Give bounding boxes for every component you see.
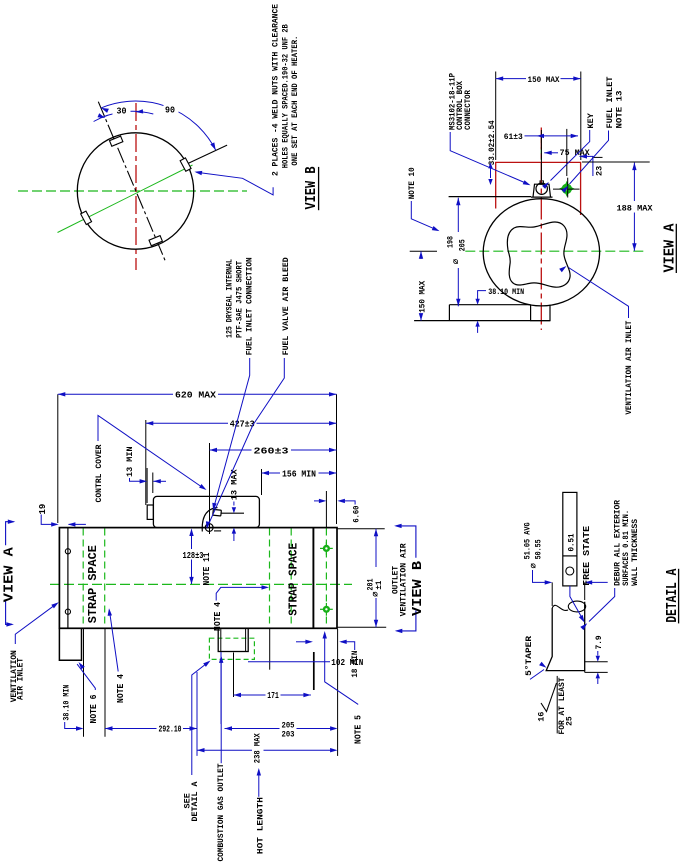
dim dia 198/205 xyxy=(457,198,459,232)
underline VIEW A title xyxy=(675,224,677,273)
svg-text:260±3: 260±3 xyxy=(254,446,289,456)
extension line for 427±3 xyxy=(145,420,147,505)
extension top edge right xyxy=(337,528,384,530)
svg-text:⌀: ⌀ xyxy=(529,563,539,569)
leader debur xyxy=(589,588,615,622)
svg-text:NOTE 11: NOTE 11 xyxy=(202,552,212,586)
svg-text:⌀: ⌀ xyxy=(371,591,381,597)
svg-text:CONTRL COVER: CONTRL COVER xyxy=(94,444,104,503)
extension outlet centerline down xyxy=(233,653,235,698)
svg-text:128±3: 128±3 xyxy=(183,551,204,561)
svg-text:427±3: 427±3 xyxy=(230,420,255,430)
svg-text:NOTE 6: NOTE 6 xyxy=(89,695,99,724)
control cover xyxy=(153,496,259,527)
extension tube right up xyxy=(584,582,586,600)
dim 102 MIN / 18 MIN xyxy=(296,641,309,643)
svg-text:19: 19 xyxy=(38,504,48,515)
extension line tab xyxy=(146,468,148,503)
combustion gas outlet stub xyxy=(218,628,248,651)
svg-text:STRAP SPACE: STRAP SPACE xyxy=(287,543,301,616)
svg-text:±1: ±1 xyxy=(375,580,384,589)
VIEW B diagonal nut axis (green) xyxy=(58,165,193,233)
bottom bracket xyxy=(449,304,530,306)
break line squiggle xyxy=(552,605,568,610)
fuel inlet line upper xyxy=(221,512,244,514)
svg-text:171: 171 xyxy=(267,691,279,701)
fuel inlet symbol (green) xyxy=(562,184,572,194)
weld nut at 86.1,217.8 xyxy=(81,211,92,224)
extension line right (shared) xyxy=(336,394,338,524)
leader CONTRL COVER xyxy=(98,416,204,489)
extension end cap down xyxy=(313,652,315,690)
extension line for 260±3 xyxy=(209,443,211,534)
tick for 23 xyxy=(592,156,602,158)
svg-text:DETAIL A: DETAIL A xyxy=(664,569,680,623)
right end cap weld line xyxy=(312,528,314,629)
extension fuel inlet center xyxy=(566,129,568,176)
surface finish check xyxy=(541,692,554,712)
extension bottom edge right xyxy=(337,626,386,628)
leader KEY xyxy=(551,130,590,181)
svg-text:61±3: 61±3 xyxy=(504,132,523,142)
leader ventilation air inlet view A xyxy=(569,268,629,319)
dim 128±3 + NOTE 11 xyxy=(191,530,193,550)
svg-text:7.9: 7.9 xyxy=(594,635,604,649)
strap space line left-2 (green dashed) xyxy=(104,529,106,628)
svg-text:WALL THICKNESS: WALL THICKNESS xyxy=(631,519,640,586)
underline DETAIL A title xyxy=(678,569,680,624)
svg-text:COMBUSTION GAS OUTLET: COMBUSTION GAS OUTLET xyxy=(216,764,226,862)
VIEW B circle xyxy=(77,133,193,249)
connector on top of circle xyxy=(533,184,551,197)
extension connector center xyxy=(540,130,542,180)
svg-text:VENTILATION AIR INLET: VENTILATION AIR INLET xyxy=(624,321,634,415)
svg-text:203: 203 xyxy=(282,730,295,739)
svg-text:VIEW B: VIEW B xyxy=(304,166,320,209)
svg-text:VIEW A: VIEW A xyxy=(1,547,17,603)
svg-text:156 MIN: 156 MIN xyxy=(282,469,316,479)
svg-text:150 MAX: 150 MAX xyxy=(528,75,561,85)
extension strap line left-1 down xyxy=(83,629,85,737)
svg-text:PTF-SAE J475 SHORT: PTF-SAE J475 SHORT xyxy=(236,261,245,338)
svg-text:238 MAX: 238 MAX xyxy=(253,732,263,763)
svg-text:0.51: 0.51 xyxy=(566,534,576,552)
svg-text:STRAP SPACE: STRAP SPACE xyxy=(86,545,100,623)
strap space line right-1 (green dashed) xyxy=(269,529,271,628)
svg-text:16: 16 xyxy=(537,712,547,722)
combustion outlet marked zone (green dashed rect) xyxy=(209,638,254,659)
svg-text:2 PLACES -4 WELD NUTS WITH CLE: 2 PLACES -4 WELD NUTS WITH CLEARANCE xyxy=(272,4,281,176)
VIEW A control box footprint (red) xyxy=(496,162,581,215)
svg-text:150 MAX: 150 MAX xyxy=(418,280,428,313)
weld nut centerline (green dashed) xyxy=(325,529,327,628)
svg-text:DEBUR ALL EXTERIOR: DEBUR ALL EXTERIOR xyxy=(613,500,622,586)
underline VIEW B title xyxy=(318,167,320,210)
extension tube left up xyxy=(551,582,553,606)
weld nut at 185.6,164.6 xyxy=(180,158,191,171)
svg-text:30: 30 xyxy=(117,107,127,117)
svg-text:DETAIL A: DETAIL A xyxy=(190,781,200,822)
svg-text:292.10: 292.10 xyxy=(159,725,182,735)
strap space line left-1 (green dashed) xyxy=(82,529,84,628)
VIEW B callout brackets xyxy=(396,526,416,558)
svg-text:188 MAX: 188 MAX xyxy=(617,203,654,213)
fuel valve xyxy=(205,524,213,532)
extension red box top right xyxy=(582,161,650,163)
tube outline xyxy=(546,602,585,671)
weld nut at 155.7,240.7 xyxy=(149,236,162,246)
svg-text:HOT LENGTH: HOT LENGTH xyxy=(255,797,265,854)
svg-text:50.55: 50.55 xyxy=(535,539,544,559)
leader weld nut note xyxy=(197,172,274,195)
svg-text:FUEL INLET: FUEL INLET xyxy=(605,77,615,129)
VIEW A vertical centerline (red) xyxy=(540,128,542,331)
svg-text:38.10 MIN: 38.10 MIN xyxy=(488,287,524,297)
svg-text:FREE STATE: FREE STATE xyxy=(582,525,592,586)
centerline horizontal main view (green dashed) xyxy=(50,583,352,585)
svg-text:CONNECTOR: CONNECTOR xyxy=(464,90,473,130)
extension left 150 MAX xyxy=(495,72,497,161)
svg-text:205: 205 xyxy=(282,722,295,731)
feature control frame (circularity 0.51) xyxy=(563,492,577,586)
extension line 7.9 upper xyxy=(585,661,608,663)
extension line 7.9 lower xyxy=(585,671,608,673)
strap top edge line xyxy=(449,196,531,198)
svg-text:38.10 MIN: 38.10 MIN xyxy=(61,685,71,721)
fuel inlet cross vertical xyxy=(567,178,569,198)
valve base line xyxy=(214,530,221,532)
svg-text:NOTE 5: NOTE 5 xyxy=(354,715,364,744)
svg-text:5°TAPER: 5°TAPER xyxy=(524,635,534,676)
extension outlet left down xyxy=(220,652,222,724)
ventilation inlet step (bottom left) xyxy=(59,628,81,660)
svg-text:FUEL VALVE AIR BLEED: FUEL VALVE AIR BLEED xyxy=(282,257,291,355)
svg-text:90: 90 xyxy=(165,106,175,116)
fuel line arc xyxy=(202,508,217,532)
extension line nut centerline up xyxy=(325,491,327,527)
leader fuel inlet xyxy=(570,131,609,185)
angle dim 30 (inner arc) xyxy=(94,111,154,121)
weld nut circles left end xyxy=(65,549,70,554)
leader fuel valve air bleed xyxy=(207,358,284,527)
leader taper xyxy=(530,670,544,680)
svg-text:18 MIN: 18 MIN xyxy=(350,651,360,678)
dim 238 MAX xyxy=(197,749,252,751)
weld nut symbol (green) at right end y=548.4 xyxy=(323,545,330,552)
angle dim 90 (outer arc) xyxy=(101,101,216,150)
fuel inlet cross horizontal xyxy=(553,188,580,190)
svg-text:13 MIN: 13 MIN xyxy=(125,446,135,477)
svg-text:25: 25 xyxy=(565,716,574,726)
svg-text:198: 198 xyxy=(446,236,455,248)
leader FCF xyxy=(570,586,584,621)
svg-text:VENTILATION AIR: VENTILATION AIR xyxy=(400,543,409,616)
leader connector xyxy=(450,132,528,184)
svg-text:23: 23 xyxy=(595,166,605,176)
VIEW A vertical green dashes xyxy=(540,136,542,160)
VIEW B horizontal centerline (green dashed) xyxy=(18,190,247,192)
svg-text:AIR INLET: AIR INLET xyxy=(17,658,26,700)
left end cap weld line xyxy=(67,528,69,629)
svg-text:NOTE 4: NOTE 4 xyxy=(116,673,126,703)
svg-text:HOLES EQUALLY SPACED.190-32 UN: HOLES EQUALLY SPACED.190-32 UNF 2B xyxy=(282,24,291,168)
dim 171 xyxy=(234,694,266,696)
extension strap right-1 down xyxy=(269,629,271,670)
svg-text:⌀: ⌀ xyxy=(451,258,461,264)
svg-text:KEY: KEY xyxy=(586,112,596,128)
svg-text:51.05 AVG: 51.05 AVG xyxy=(524,522,533,559)
svg-text:33.02±2.54: 33.02±2.54 xyxy=(488,120,497,165)
heater body outline xyxy=(59,528,337,629)
svg-text:6.60: 6.60 xyxy=(352,506,361,523)
extension line for 156 MIN xyxy=(261,469,263,495)
leader ventilation air inlet xyxy=(15,604,56,644)
svg-text:NOTE 4: NOTE 4 xyxy=(213,601,223,631)
extension line left for 620 MAX xyxy=(57,394,59,523)
svg-text:SURFACES 0.81 MIN.: SURFACES 0.81 MIN. xyxy=(622,510,631,586)
svg-text:VIEW B: VIEW B xyxy=(410,560,426,616)
leader fuel inlet connection xyxy=(214,358,250,509)
svg-text:ONE SET AT EACH END OF HEATER.: ONE SET AT EACH END OF HEATER. xyxy=(291,36,300,166)
heat exchanger clover shape xyxy=(507,222,570,287)
control cover tab xyxy=(147,505,153,519)
svg-text:FUEL INLET CONNECTION: FUEL INLET CONNECTION xyxy=(246,257,255,355)
weld nut symbol (green) at right end y=609.3 xyxy=(323,606,330,613)
dim 75 MAX xyxy=(544,152,558,154)
tick top 150 MAX left xyxy=(410,250,437,252)
svg-text:125 DRYSEAL INTERNAL: 125 DRYSEAL INTERNAL xyxy=(226,259,235,338)
svg-text:620 MAX: 620 MAX xyxy=(175,391,217,401)
leader NOTE 10 xyxy=(411,201,437,230)
extension fuel valve center down xyxy=(196,672,198,756)
bolt axis diagonal (black) xyxy=(98,102,166,263)
svg-text:NOTE 13: NOTE 13 xyxy=(615,91,625,129)
extension right 150 MAX xyxy=(580,72,582,161)
strap space line right-2 (green dashed) xyxy=(290,529,292,628)
svg-text:205: 205 xyxy=(459,239,468,251)
VIEW B vertical centerline (red) xyxy=(135,103,137,270)
extension body right down xyxy=(337,629,339,756)
svg-text:NOTE 10: NOTE 10 xyxy=(407,167,417,199)
VIEW A circle xyxy=(483,199,599,306)
taper extension line xyxy=(556,676,558,734)
radial line for 90 deg dim xyxy=(186,145,227,164)
extension strap line left-2 down xyxy=(104,629,106,737)
VIEW A callout brackets (far left) xyxy=(6,522,14,546)
VIEW A horizontal centerline (green dashed) xyxy=(465,250,645,252)
weld nut at 116.2,141.2 xyxy=(110,136,123,146)
